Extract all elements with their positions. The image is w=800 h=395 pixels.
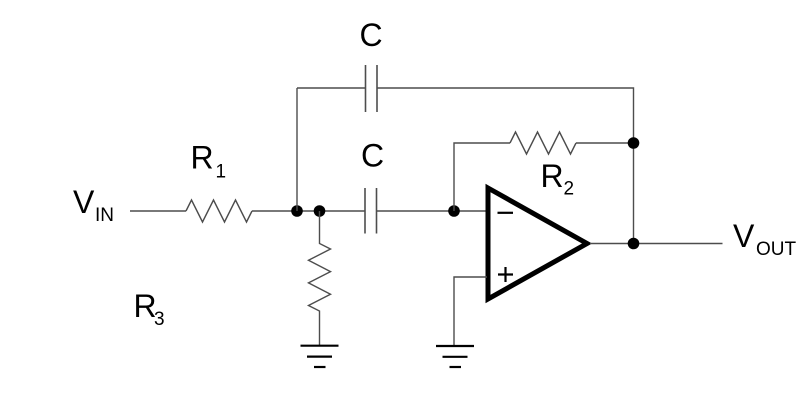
wire C middle to op-amp inverting input (377, 210, 488, 212)
svg-text:V: V (733, 218, 755, 254)
svg-text:3: 3 (154, 309, 165, 330)
resistor R3 vertical (309, 211, 331, 345)
wire non-inverting input to ground (454, 277, 487, 345)
svg-text:C: C (361, 138, 384, 174)
svg-text:C: C (360, 17, 383, 53)
label VOUT (733, 218, 797, 260)
label R1 (191, 140, 227, 183)
svg-text:R: R (541, 158, 564, 194)
wire node C up to R2 (454, 143, 510, 211)
ground for op-amp positive input (436, 346, 474, 367)
node A junction dot (291, 205, 303, 217)
label R3 (134, 288, 165, 330)
wire R2 to feedback node (576, 142, 634, 144)
svg-text:1: 1 (216, 162, 227, 183)
resistor R2 (510, 132, 576, 154)
svg-text:2: 2 (564, 179, 575, 200)
svg-text:R: R (191, 140, 214, 176)
svg-text:OUT: OUT (756, 239, 797, 260)
plus sign at non-inverting input (498, 267, 513, 282)
wire VIN to R1 (130, 210, 186, 212)
wire R1 to node A (252, 210, 365, 212)
op-amp U1 (488, 188, 587, 299)
node B junction dot (314, 205, 326, 217)
wire op-amp output to VOUT (590, 243, 723, 245)
node D junction dot (feedback top) (628, 137, 640, 149)
capacitor C middle (365, 188, 377, 234)
node C junction dot (inverting input) (448, 205, 460, 217)
svg-text:V: V (73, 184, 95, 220)
capacitor C top (366, 65, 378, 112)
node E junction dot (output) (628, 238, 640, 250)
label R2 (541, 158, 575, 200)
wire node A up to top branch (296, 88, 298, 211)
resistor R1 (186, 200, 252, 222)
svg-text:IN: IN (95, 205, 114, 226)
minus sign at inverting input (498, 212, 514, 214)
wire top branch left (297, 87, 366, 89)
wire top branch right (377, 88, 634, 244)
label VIN (73, 184, 114, 226)
ground for R3 (301, 346, 339, 367)
